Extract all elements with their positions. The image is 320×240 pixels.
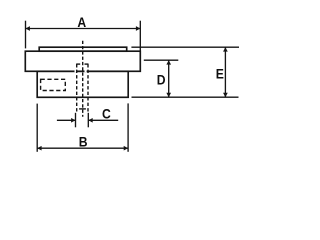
- arrowhead B left: [37, 146, 41, 151]
- white gap in flange bottom edge left of hidden hole line: [75, 70, 77, 72]
- arrowhead B right: [124, 146, 128, 151]
- svg-text:C: C: [102, 106, 111, 122]
- hidden hole right edge: [87, 64, 89, 113]
- svg-text:D: D: [157, 72, 166, 88]
- svg-text:E: E: [216, 66, 224, 82]
- dimension A left extension line: [25, 21, 27, 49]
- arrowhead A left: [26, 26, 30, 31]
- dimension C right extension line: [87, 113, 89, 128]
- center cross mark: [79, 108, 86, 110]
- body: [37, 71, 128, 97]
- arrowhead E bottom: [223, 93, 228, 97]
- bottom extension line shared by D and E: [132, 96, 239, 98]
- dimension C left extension line: [75, 113, 77, 128]
- dimension E line: [224, 47, 226, 97]
- dimension C right arrow line: [88, 119, 118, 121]
- arrowhead C left pointing right: [71, 118, 75, 123]
- svg-text:A: A: [77, 14, 86, 30]
- arrowhead C right pointing left: [88, 118, 92, 123]
- arrowhead E top: [223, 47, 228, 51]
- arrowhead D bottom: [166, 93, 171, 97]
- flange: [25, 51, 140, 71]
- arrowhead A right: [136, 26, 140, 31]
- svg-text:B: B: [79, 134, 88, 150]
- top plate: [39, 47, 127, 51]
- dimension D top extension line: [144, 59, 179, 61]
- arrowhead D top: [166, 60, 171, 64]
- dimension B right extension line: [127, 103, 129, 151]
- dimension A line: [26, 28, 141, 30]
- centerline: [82, 41, 84, 117]
- hidden hole top edge right segment: [85, 63, 89, 65]
- dimension B left extension line: [36, 104, 38, 152]
- hidden detail dashed rectangle: [41, 79, 66, 90]
- hidden hole left edge: [76, 64, 78, 113]
- dimension C left arrow line: [57, 119, 76, 121]
- dimension A right extension line: [139, 21, 141, 51]
- hidden hole top edge left segment: [76, 63, 80, 65]
- white gap in flange bottom edge left of hidden hole right line: [85, 70, 87, 72]
- dimension E top extension line: [131, 46, 239, 48]
- dimension D line: [168, 60, 170, 97]
- dimension B line: [37, 147, 128, 149]
